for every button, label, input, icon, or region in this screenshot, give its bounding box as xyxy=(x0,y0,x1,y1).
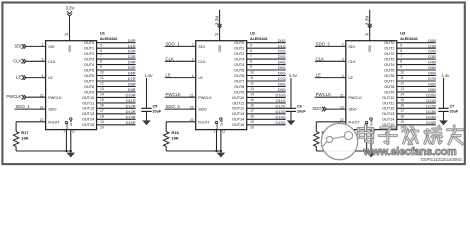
svg-text:18K: 18K xyxy=(21,136,28,141)
svg-text:13: 13 xyxy=(100,87,104,91)
svg-text:CLK: CLK xyxy=(166,56,175,61)
svg-text:D9B: D9B xyxy=(428,87,436,92)
svg-text:D11R: D11R xyxy=(126,98,136,103)
svg-text:13: 13 xyxy=(400,87,404,91)
svg-text:D3G: D3G xyxy=(278,54,286,59)
svg-text:PWCLK: PWCLK xyxy=(198,96,212,100)
svg-text:5: 5 xyxy=(400,43,402,47)
svg-text:D1B: D1B xyxy=(428,43,436,48)
svg-text:LE: LE xyxy=(16,75,21,80)
svg-text:D10B: D10B xyxy=(426,93,436,98)
svg-text:LE: LE xyxy=(198,76,203,80)
svg-text:17: 17 xyxy=(400,109,404,113)
svg-text:SDO_2: SDO_2 xyxy=(166,104,181,109)
svg-text:23: 23 xyxy=(40,105,44,109)
svg-text:OUT0: OUT0 xyxy=(84,41,94,45)
svg-text:3: 3 xyxy=(342,58,344,62)
svg-text:21: 21 xyxy=(190,93,194,97)
svg-text:D7B: D7B xyxy=(428,76,436,81)
svg-text:U1: U1 xyxy=(100,31,106,36)
svg-text:OUT14: OUT14 xyxy=(382,118,394,122)
svg-text:D3R: D3R xyxy=(128,54,136,59)
svg-text:D13B: D13B xyxy=(426,109,436,114)
svg-text:17: 17 xyxy=(250,109,254,113)
svg-text:U3: U3 xyxy=(400,31,406,36)
svg-text:3.3V: 3.3V xyxy=(365,16,370,25)
svg-text:SDI: SDI xyxy=(48,45,54,49)
svg-text:D6R: D6R xyxy=(128,71,136,76)
svg-text:OUT7: OUT7 xyxy=(384,79,394,83)
svg-text:3: 3 xyxy=(42,58,44,62)
svg-text:11: 11 xyxy=(250,76,254,80)
svg-text:GND: GND xyxy=(65,122,69,130)
svg-text:15: 15 xyxy=(100,98,104,102)
svg-text:5: 5 xyxy=(250,43,252,47)
svg-text:D12B: D12B xyxy=(426,103,436,108)
svg-text:D7R: D7R xyxy=(128,76,136,81)
svg-text:12: 12 xyxy=(222,129,226,133)
svg-text:D6G: D6G xyxy=(278,71,286,76)
svg-text:20: 20 xyxy=(250,125,254,129)
svg-text:D1G: D1G xyxy=(278,43,286,48)
svg-text:D2R: D2R xyxy=(128,49,136,54)
svg-text:3.3V: 3.3V xyxy=(441,73,450,78)
svg-text:D15G: D15G xyxy=(276,120,286,125)
svg-text:D4B: D4B xyxy=(428,60,436,65)
svg-text:R17: R17 xyxy=(21,130,29,135)
svg-text:ALED1642: ALED1642 xyxy=(400,37,417,41)
svg-text:2: 2 xyxy=(342,43,344,47)
svg-text:SDO_1: SDO_1 xyxy=(166,41,181,46)
svg-text:D14R: D14R xyxy=(126,114,136,119)
svg-text:3.3V: 3.3V xyxy=(144,73,153,78)
svg-text:OUT3: OUT3 xyxy=(384,58,394,62)
svg-text:CLK: CLK xyxy=(348,60,356,64)
svg-text:OUT10: OUT10 xyxy=(232,96,244,100)
svg-text:OUT1: OUT1 xyxy=(384,47,394,51)
svg-text:23: 23 xyxy=(190,105,194,109)
svg-text:CLK: CLK xyxy=(48,60,56,64)
svg-text:6: 6 xyxy=(400,49,402,53)
svg-text:9: 9 xyxy=(100,65,102,69)
svg-text:9: 9 xyxy=(400,65,402,69)
svg-text:OUT8: OUT8 xyxy=(384,85,394,89)
svg-text:D13R: D13R xyxy=(126,109,136,114)
svg-text:4: 4 xyxy=(192,74,194,78)
svg-text:OUT13: OUT13 xyxy=(382,112,394,116)
svg-text:ALED1642: ALED1642 xyxy=(250,37,267,41)
svg-text:www.elecfans.com: www.elecfans.com xyxy=(363,146,457,158)
svg-text:15: 15 xyxy=(250,98,254,102)
svg-text:OUT12: OUT12 xyxy=(82,107,94,111)
svg-text:12: 12 xyxy=(100,82,104,86)
svg-text:8: 8 xyxy=(250,60,252,64)
svg-text:D8B: D8B xyxy=(428,82,436,87)
svg-text:19: 19 xyxy=(100,120,104,124)
svg-text:OUT9: OUT9 xyxy=(384,90,394,94)
svg-text:VDD: VDD xyxy=(368,44,372,52)
svg-text:R-EXT: R-EXT xyxy=(198,121,210,125)
svg-text:19: 19 xyxy=(250,120,254,124)
svg-text:14: 14 xyxy=(400,93,404,97)
svg-text:D10R: D10R xyxy=(126,93,136,98)
svg-text:OUT9: OUT9 xyxy=(84,90,94,94)
svg-text:21: 21 xyxy=(40,93,44,97)
svg-text:D10G: D10G xyxy=(276,93,286,98)
svg-text:R18: R18 xyxy=(171,130,179,135)
svg-text:3.3V: 3.3V xyxy=(289,73,298,78)
svg-text:3.3V: 3.3V xyxy=(66,5,75,10)
svg-text:D8R: D8R xyxy=(128,82,136,87)
svg-text:D0G: D0G xyxy=(278,38,286,43)
svg-text:22: 22 xyxy=(190,118,194,122)
svg-text:8: 8 xyxy=(100,60,102,64)
svg-text:GND: GND xyxy=(219,119,223,127)
svg-text:OUT3: OUT3 xyxy=(234,58,244,62)
svg-text:D11B: D11B xyxy=(426,98,436,103)
svg-text:11: 11 xyxy=(400,76,404,80)
svg-text:2: 2 xyxy=(42,43,44,47)
svg-text:OUT0: OUT0 xyxy=(234,41,244,45)
svg-text:15: 15 xyxy=(400,98,404,102)
svg-text:SDI: SDI xyxy=(14,43,21,48)
svg-text:7: 7 xyxy=(100,54,102,58)
svg-text:22: 22 xyxy=(40,118,44,122)
svg-text:CLK: CLK xyxy=(198,60,206,64)
svg-text:16: 16 xyxy=(400,104,404,108)
svg-text:SDI: SDI xyxy=(348,45,354,49)
svg-text:12: 12 xyxy=(400,82,404,86)
svg-text:D3B: D3B xyxy=(428,54,436,59)
svg-text:D0R: D0R xyxy=(128,38,136,43)
svg-text:OUT11: OUT11 xyxy=(82,101,94,105)
svg-text:LE: LE xyxy=(48,76,53,80)
svg-text:24: 24 xyxy=(65,32,69,36)
svg-text:D13G: D13G xyxy=(276,109,286,114)
svg-text:PWCLK: PWCLK xyxy=(6,94,21,99)
svg-text:GND: GND xyxy=(215,122,219,130)
svg-text:VDD: VDD xyxy=(68,44,72,52)
svg-text:12: 12 xyxy=(250,82,254,86)
svg-text:14: 14 xyxy=(250,93,254,97)
svg-text:10uF: 10uF xyxy=(450,109,459,113)
svg-text:OUT11: OUT11 xyxy=(232,101,244,105)
svg-text:OUT8: OUT8 xyxy=(234,85,244,89)
svg-text:4: 4 xyxy=(42,74,44,78)
svg-text:OUT13: OUT13 xyxy=(232,112,244,116)
svg-text:OUT2: OUT2 xyxy=(384,52,394,56)
svg-text:14: 14 xyxy=(100,93,104,97)
svg-text:SDO_2: SDO_2 xyxy=(316,41,331,46)
svg-text:2: 2 xyxy=(192,43,194,47)
svg-text:D6B: D6B xyxy=(428,71,436,76)
svg-text:OUT0: OUT0 xyxy=(384,41,394,45)
svg-text:C7: C7 xyxy=(450,105,455,109)
svg-text:4: 4 xyxy=(342,74,344,78)
svg-text:D15B: D15B xyxy=(426,120,436,125)
svg-text:OUT8: OUT8 xyxy=(84,85,94,89)
svg-text:D15R: D15R xyxy=(126,120,136,125)
svg-text:D2G: D2G xyxy=(278,49,286,54)
svg-text:OUT1: OUT1 xyxy=(234,47,244,51)
svg-text:D2B: D2B xyxy=(428,49,436,54)
svg-text:10: 10 xyxy=(400,71,404,75)
svg-text:SDO: SDO xyxy=(312,106,322,111)
svg-text:U2: U2 xyxy=(250,31,256,36)
svg-text:VDD: VDD xyxy=(218,44,222,52)
svg-text:OUT4: OUT4 xyxy=(84,63,94,67)
svg-text:SDO: SDO xyxy=(48,108,56,112)
svg-text:7: 7 xyxy=(250,54,252,58)
svg-text:SDO: SDO xyxy=(348,108,356,112)
svg-text:CLK: CLK xyxy=(316,56,325,61)
svg-text:18K: 18K xyxy=(171,136,178,141)
svg-text:D9G: D9G xyxy=(278,87,286,92)
svg-text:D5R: D5R xyxy=(128,65,136,70)
svg-text:OUT1: OUT1 xyxy=(84,47,94,51)
svg-text:LE: LE xyxy=(348,76,353,80)
svg-text:OUT7: OUT7 xyxy=(84,79,94,83)
svg-text:OUT12: OUT12 xyxy=(382,107,394,111)
svg-text:10uF: 10uF xyxy=(297,109,306,113)
svg-text:LE: LE xyxy=(166,73,171,78)
svg-text:OUT3: OUT3 xyxy=(84,58,94,62)
svg-text:PWCLK: PWCLK xyxy=(166,92,182,97)
svg-text:D0B: D0B xyxy=(428,38,436,43)
svg-text:18: 18 xyxy=(100,114,104,118)
svg-text:OUT11: OUT11 xyxy=(382,101,394,105)
svg-text:D7G: D7G xyxy=(278,76,286,81)
svg-text:21: 21 xyxy=(340,93,344,97)
svg-text:SDO: SDO xyxy=(198,108,206,112)
svg-text:23: 23 xyxy=(340,105,344,109)
svg-text:GND: GND xyxy=(369,119,373,127)
svg-text:D4R: D4R xyxy=(128,60,136,65)
svg-text:12: 12 xyxy=(72,129,76,133)
svg-text:OUT2: OUT2 xyxy=(234,52,244,56)
svg-text:3: 3 xyxy=(192,58,194,62)
svg-text:OUT15: OUT15 xyxy=(232,123,244,127)
svg-text:10uF: 10uF xyxy=(153,109,162,113)
svg-text:OUT2: OUT2 xyxy=(84,52,94,56)
svg-text:OUT7: OUT7 xyxy=(234,79,244,83)
svg-text:OUT13: OUT13 xyxy=(82,112,94,116)
svg-text:18: 18 xyxy=(250,114,254,118)
svg-text:17: 17 xyxy=(100,109,104,113)
svg-text:6: 6 xyxy=(250,49,252,53)
svg-text:20: 20 xyxy=(100,125,104,129)
svg-text:9: 9 xyxy=(250,65,252,69)
svg-text:PWCLK: PWCLK xyxy=(348,96,362,100)
svg-text:OUT9: OUT9 xyxy=(234,90,244,94)
svg-text:D11G: D11G xyxy=(276,98,286,103)
svg-text:C6: C6 xyxy=(297,105,302,109)
svg-text:OUT5: OUT5 xyxy=(384,69,394,73)
svg-text:D8G: D8G xyxy=(278,82,286,87)
svg-text:D5B: D5B xyxy=(428,65,436,70)
svg-text:10: 10 xyxy=(250,71,254,75)
svg-text:16: 16 xyxy=(100,104,104,108)
svg-text:SDO_1: SDO_1 xyxy=(15,104,30,109)
svg-text:11: 11 xyxy=(100,76,104,80)
svg-text:D1R: D1R xyxy=(128,43,136,48)
svg-text:ALED1642: ALED1642 xyxy=(100,37,117,41)
svg-text:CLK: CLK xyxy=(13,58,21,63)
svg-text:6: 6 xyxy=(100,49,102,53)
svg-text:8: 8 xyxy=(400,60,402,64)
svg-text:SDI: SDI xyxy=(198,45,204,49)
svg-text:OUT14: OUT14 xyxy=(82,118,94,122)
svg-text:OUT10: OUT10 xyxy=(382,96,394,100)
svg-text:24: 24 xyxy=(215,32,219,36)
svg-text:OUT14: OUT14 xyxy=(232,118,244,122)
svg-text:OUT10: OUT10 xyxy=(82,96,94,100)
svg-text:PWCLK: PWCLK xyxy=(48,96,62,100)
svg-text:18: 18 xyxy=(400,114,404,118)
svg-text:OUT6: OUT6 xyxy=(84,74,94,78)
svg-text:22: 22 xyxy=(340,118,344,122)
svg-text:OUT4: OUT4 xyxy=(234,63,244,67)
svg-text:OUT5: OUT5 xyxy=(84,69,94,73)
svg-text:24: 24 xyxy=(365,32,369,36)
svg-text:7: 7 xyxy=(400,54,402,58)
svg-text:OUT4: OUT4 xyxy=(384,63,394,67)
svg-text:OUT6: OUT6 xyxy=(384,74,394,78)
svg-text:OUT5: OUT5 xyxy=(234,69,244,73)
svg-text:13: 13 xyxy=(250,87,254,91)
svg-text:D4G: D4G xyxy=(278,60,286,65)
svg-text:PWCLK: PWCLK xyxy=(316,92,332,97)
svg-text:16: 16 xyxy=(250,104,254,108)
svg-text:19: 19 xyxy=(400,120,404,124)
svg-text:5: 5 xyxy=(100,43,102,47)
svg-text:D14G: D14G xyxy=(276,114,286,119)
svg-text:D12R: D12R xyxy=(126,103,136,108)
svg-text:OUT15: OUT15 xyxy=(82,123,94,127)
svg-text:GSPG11011614005G: GSPG11011614005G xyxy=(421,157,463,162)
svg-text:GND: GND xyxy=(69,119,73,127)
svg-text:OUT12: OUT12 xyxy=(232,107,244,111)
svg-text:D14B: D14B xyxy=(426,114,436,119)
svg-text:10: 10 xyxy=(100,71,104,75)
svg-text:D5G: D5G xyxy=(278,65,286,70)
svg-text:D9R: D9R xyxy=(128,87,136,92)
svg-text:R-EXT: R-EXT xyxy=(348,121,360,125)
svg-text:C5: C5 xyxy=(153,105,158,109)
svg-text:OUT6: OUT6 xyxy=(234,74,244,78)
svg-text:D12G: D12G xyxy=(276,103,286,108)
svg-text:R-EXT: R-EXT xyxy=(48,121,60,125)
svg-text:3.3V: 3.3V xyxy=(214,16,219,25)
svg-text:LE: LE xyxy=(316,73,321,78)
